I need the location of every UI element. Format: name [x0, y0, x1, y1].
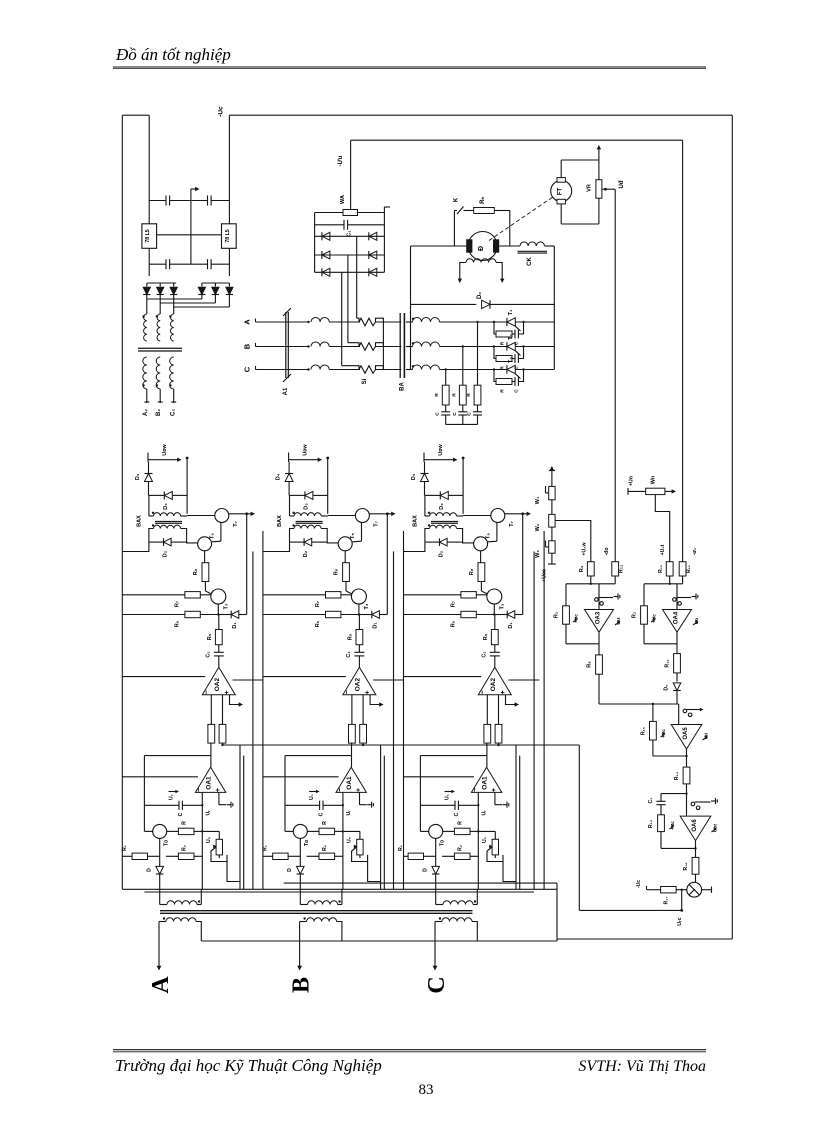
svg-text:T₁: T₁ — [508, 309, 514, 315]
contact K — [454, 210, 457, 212]
svg-text:R₅: R₅ — [483, 633, 489, 640]
wire center rail PSU — [190, 201, 192, 265]
wire oscillator output node — [681, 890, 683, 911]
wire right border — [731, 115, 733, 939]
resistor R1a ch3 — [404, 855, 409, 857]
svg-text:BAX: BAX — [137, 515, 143, 527]
resistor R6 ch3 — [404, 614, 461, 616]
svg-text:OA1: OA1 — [206, 776, 213, 790]
svg-text:R₁: R₁ — [263, 845, 269, 851]
wire -Uu tap — [350, 140, 352, 209]
svg-text:D₂: D₂ — [303, 550, 309, 557]
resistor R3 ch2 — [349, 724, 356, 743]
svg-text:Tᴅ: Tᴅ — [440, 840, 446, 846]
wire BAX lower to base ch2 — [290, 529, 295, 543]
node A2 B2 C2 terminals — [144, 401, 149, 403]
resistor R8 ch3 — [480, 551, 482, 563]
svg-text:−: − — [337, 788, 344, 792]
diode D1 ch2 — [358, 604, 360, 615]
resistor R6 ch2 — [263, 614, 326, 616]
svg-text:K: K — [454, 197, 460, 202]
capacitor C comparator ch3 — [419, 756, 421, 832]
resistor R17 — [647, 889, 661, 891]
resistor R8 ch2 — [344, 551, 346, 563]
diode D4 ch3 — [424, 462, 426, 474]
pulse transformer BAX ch2 — [289, 495, 291, 516]
footer rule — [113, 1049, 706, 1051]
wire channel inner box ch2 — [380, 745, 382, 889]
diode D3 ch1 — [149, 494, 164, 496]
svg-text:C: C — [178, 812, 184, 816]
snubber network R-C phase B — [462, 347, 464, 386]
diode D ch3 — [435, 838, 437, 866]
bridge diode row 2 — [315, 254, 385, 256]
svg-text:−: − — [480, 690, 487, 694]
wire OA2 plus stub arrow ch1 — [230, 695, 241, 705]
svg-text:R: R — [322, 821, 328, 825]
svg-text:R₁₁: R₁₁ — [658, 565, 664, 573]
svg-text:W₁: W₁ — [535, 496, 541, 504]
resistor R5 ch3 — [494, 615, 496, 630]
wire sync secondary return — [201, 940, 557, 942]
capacitor C1 ch2 — [354, 651, 364, 653]
svg-text:OA2: OA2 — [214, 678, 221, 692]
wire OA1 input stubs ch2 — [342, 792, 344, 889]
op-amp OA3 — [566, 583, 615, 585]
snubber RC T₂ — [494, 347, 496, 359]
svg-text:Tᴅ: Tᴅ — [304, 840, 310, 846]
transistor T1 ch2 — [285, 830, 293, 832]
resistor R3 ch3 — [484, 724, 491, 743]
capacitor C1 ch3 — [490, 651, 500, 653]
op-amp OA1 ch3 — [471, 767, 501, 792]
capacitor C comparator ch2 — [284, 756, 286, 832]
svg-text:R: R — [451, 393, 457, 397]
resistor R4 ch3 — [495, 724, 502, 743]
resistor R6 reg — [598, 632, 600, 655]
svg-text:R₁₅: R₁₅ — [641, 726, 647, 735]
svg-text:U₁: U₁ — [309, 794, 315, 800]
svg-text:+: + — [365, 690, 372, 694]
sync transformer secondary ch1 — [163, 917, 165, 919]
wire K branch legs — [453, 211, 455, 247]
regulator 78L5 left — [142, 224, 157, 249]
svg-text:-Uᴄ: -Uᴄ — [218, 106, 225, 117]
svg-text:U₁: U₁ — [445, 794, 451, 800]
capacitor C1 integrator — [661, 793, 687, 795]
pulse shaper stage — [687, 882, 702, 897]
svg-text:-đᴏ: -đᴏ — [604, 547, 610, 555]
tacho generator FT — [551, 181, 572, 202]
resistor R3 ch1 — [208, 724, 215, 743]
ground reference pots — [551, 467, 553, 486]
svg-text:R: R — [500, 366, 506, 370]
transformer BA primary C — [307, 368, 309, 370]
svg-text:U₀: U₀ — [482, 836, 488, 843]
transistor T7 ch1 — [215, 509, 229, 523]
node U1w marker ch3 — [423, 453, 425, 463]
choke CK — [520, 242, 545, 246]
sync transformer primary ch3 — [435, 889, 437, 904]
svg-text:R₁: R₁ — [122, 845, 128, 851]
svg-text:R₇: R₇ — [451, 601, 457, 607]
svg-text:CK: CK — [527, 257, 533, 266]
op-amp OA2 ch2 — [343, 667, 376, 695]
wire T7 emitter feedback ch2 — [386, 514, 388, 615]
svg-text:OA2: OA2 — [354, 678, 361, 692]
diode D3 ch3 — [425, 494, 440, 496]
resistor R7 ch1 — [122, 594, 185, 596]
svg-text:SVTH: Vũ Thị Thoa: SVTH: Vũ Thị Thoa — [578, 1058, 706, 1075]
svg-text:R: R — [434, 393, 440, 397]
node common output arrow — [190, 189, 192, 201]
svg-text:R₈: R₈ — [193, 568, 199, 575]
bridge diode row 3 — [315, 271, 385, 273]
snubber network R-C phase A — [477, 322, 479, 385]
resistor R2 ch2 — [307, 830, 319, 832]
svg-text:W₂: W₂ — [535, 523, 541, 531]
snubber RC T₁ — [494, 322, 496, 334]
svg-text:R₅: R₅ — [207, 633, 213, 640]
wire tacho loop — [560, 160, 562, 178]
capacitor C7 — [149, 200, 166, 202]
svg-text:T₃: T₃ — [500, 603, 506, 609]
svg-text:R₁₄: R₁₄ — [674, 771, 680, 780]
svg-text:83: 83 — [419, 1082, 434, 1098]
resistor R1b ch2 — [307, 855, 319, 857]
resistor R13 integrator — [658, 815, 665, 832]
tacho coupling dashed shaft — [489, 197, 554, 241]
wire BAX top right ch1 — [186, 458, 188, 514]
transformer BA primary A — [307, 321, 309, 323]
svg-text:T₇: T₇ — [233, 521, 239, 527]
svg-text:Uᵣ: Uᵣ — [206, 810, 212, 816]
svg-text:+: + — [356, 788, 363, 792]
svg-text:BAX: BAX — [277, 515, 283, 527]
svg-text:C: C — [319, 812, 325, 816]
sync transformer secondary ch3 — [439, 917, 441, 919]
capacitor C10 — [191, 263, 208, 265]
svg-text:+U₂t: +U₂t — [660, 544, 666, 555]
svg-text:T₃: T₃ — [364, 603, 370, 609]
transformer BA2 primary windings — [144, 314, 147, 341]
svg-text:U₀: U₀ — [206, 836, 212, 843]
svg-text:D: D — [287, 868, 293, 872]
wire voltage feedback rail — [682, 140, 684, 562]
fuse Si B — [359, 343, 376, 351]
svg-text:+Un: +Un — [629, 476, 635, 486]
svg-text:Đồ án tốt nghiệp: Đồ án tốt nghiệp — [115, 45, 231, 64]
resistor R6 ch1 — [122, 614, 185, 616]
resistor R1a ch2 — [263, 855, 273, 857]
svg-text:+: + — [500, 690, 507, 694]
transistor T3 ch3 — [487, 589, 502, 604]
wire channel left rail link ch2 — [263, 542, 290, 551]
resistor R13a reg — [666, 562, 673, 576]
transformer BA2 secondary windings — [143, 357, 147, 389]
wire T7 emitter feedback ch3 — [522, 514, 524, 615]
transistor T5 ch3 — [496, 522, 498, 541]
diode D2 ch2 — [290, 541, 305, 543]
node U1w marker ch2 — [288, 453, 290, 463]
svg-text:B: B — [243, 343, 252, 349]
svg-text:Uᵣ: Uᵣ — [482, 810, 488, 816]
svg-text:D: D — [147, 868, 153, 872]
wire OA2 plus stub arrow ch2 — [370, 695, 381, 705]
svg-text:D₄: D₄ — [411, 473, 417, 480]
svg-text:OA6: OA6 — [692, 819, 698, 832]
svg-text:Uᴅw: Uᴅw — [162, 444, 168, 456]
diode D ch2 — [299, 838, 301, 866]
diode D5 — [673, 683, 681, 691]
thyristor T₁ — [507, 318, 515, 326]
svg-text:VR: VR — [587, 184, 593, 192]
wire phase lead ch2 — [299, 922, 301, 968]
wire BAX top right ch3 — [462, 458, 464, 514]
wire OA1 apex node ch1 — [144, 755, 211, 757]
svg-text:R₄: R₄ — [579, 565, 585, 572]
svg-text:+: + — [224, 690, 231, 694]
node +Ucc supply — [551, 553, 553, 564]
capacitor C bridge — [315, 224, 344, 226]
diode D3 ch2 — [290, 494, 305, 496]
svg-text:R₂: R₂ — [182, 844, 188, 851]
wire outer frame top-left — [122, 114, 149, 116]
svg-text:-Ưu: -Ưu — [338, 155, 344, 166]
svg-text:Rₕ: Rₕ — [480, 197, 486, 204]
svg-text:T₅: T₅ — [350, 533, 356, 539]
svg-text:R₅: R₅ — [348, 633, 354, 640]
svg-text:D₃: D₃ — [304, 503, 310, 510]
wire speed reference rail — [614, 189, 616, 562]
svg-text:R: R — [500, 341, 506, 345]
svg-text:OA5: OA5 — [683, 727, 689, 740]
svg-text:W₃: W₃ — [535, 550, 541, 558]
svg-text:D₃: D₃ — [439, 503, 445, 510]
wire channel left rail link ch1 — [122, 542, 149, 551]
svg-text:C₁: C₁ — [346, 651, 352, 658]
svg-text:Uᵣc: Uᵣc — [677, 917, 683, 925]
svg-text:−: − — [204, 690, 211, 694]
wire OA1 minus line ch1 — [122, 776, 198, 778]
svg-text:A: A — [243, 319, 252, 325]
sync transformer core rail — [160, 910, 473, 912]
node Ud wiper — [602, 188, 615, 190]
wire OA1 minus line ch3 — [404, 776, 475, 778]
svg-text:+Uᴄᴄ: +Uᴄᴄ — [542, 569, 548, 582]
resistor R4 reg — [555, 521, 591, 562]
wire channel inner box ch3 — [515, 745, 517, 889]
resistor R1a ch1 — [122, 855, 132, 857]
svg-text:A: A — [148, 976, 174, 994]
svg-text:T₂: T₂ — [508, 334, 514, 340]
wire Wn wiper — [655, 495, 669, 562]
svg-text:R₇: R₇ — [315, 601, 321, 607]
resistor R1 feedback OA4 — [643, 584, 645, 606]
transformer BA secondary A — [406, 321, 413, 323]
transistor T5 ch2 — [361, 522, 363, 541]
resistor R11 reg — [612, 562, 619, 576]
wire channel left rail link ch3 — [404, 542, 425, 551]
svg-text:U₀: U₀ — [347, 836, 353, 843]
svg-text:−: − — [472, 788, 479, 792]
sync transformer secondary ch2 — [303, 917, 305, 919]
wire T7 emitter feedback ch1 — [246, 514, 248, 615]
header rule — [113, 66, 706, 68]
wire summing node — [599, 703, 679, 705]
svg-text:D₁: D₁ — [508, 622, 514, 629]
svg-text:OA1: OA1 — [482, 776, 489, 790]
sync transformer primary ch1 — [159, 889, 161, 904]
op-amp OA2 ch3 — [478, 667, 511, 695]
transformer BA core — [399, 313, 401, 378]
wire motor box sides — [410, 246, 412, 370]
svg-text:R₁₇: R₁₇ — [664, 897, 670, 905]
svg-text:78 L5: 78 L5 — [225, 229, 231, 242]
svg-text:R₁₃: R₁₃ — [648, 819, 654, 828]
wire OA2 inputs ch1 — [122, 676, 205, 678]
diode D1 ch1 — [217, 604, 219, 615]
resistor R7 ch3 — [404, 594, 461, 596]
svg-text:D₁: D₁ — [373, 622, 379, 629]
svg-text:C: C — [452, 412, 458, 416]
fuse Si A — [359, 318, 376, 326]
node U1w marker ch1 — [147, 453, 149, 463]
svg-text:−: − — [344, 690, 351, 694]
svg-text:R₁: R₁ — [632, 611, 638, 618]
transistor T1 ch1 — [144, 830, 152, 832]
svg-text:R₆: R₆ — [315, 620, 321, 627]
wire OA1 apex node ch3 — [420, 755, 487, 757]
svg-text:D₅: D₅ — [664, 684, 670, 691]
svg-text:C: C — [243, 366, 252, 372]
svg-text:Trường đại học Kỹ Thuật Công N: Trường đại học Kỹ Thuật Công Nghiệp — [115, 1056, 382, 1075]
svg-text:R₁: R₁ — [398, 845, 404, 851]
op-amp OA4 — [644, 583, 683, 585]
svg-text:OA2: OA2 — [490, 678, 497, 692]
op-amp OA1 ch2 — [336, 767, 366, 792]
svg-text:R₈: R₈ — [469, 568, 475, 575]
wire bridge to phases — [356, 236, 358, 318]
svg-text:BA: BA — [399, 382, 405, 391]
svg-text:Uᴅw: Uᴅw — [438, 444, 444, 456]
potentiometer W3 — [551, 527, 553, 541]
svg-text:C: C — [435, 412, 441, 416]
diode D4 ch2 — [288, 462, 290, 474]
wire armature line — [411, 245, 468, 247]
snubber RC T₃ — [494, 370, 496, 382]
svg-text:Uᴅw: Uᴅw — [303, 444, 309, 456]
wire OA2 inputs ch2 — [263, 676, 346, 678]
wire phase lead ch3 — [434, 922, 436, 968]
resistor R16 — [695, 841, 697, 858]
svg-text:C: C — [467, 412, 473, 416]
svg-text:+: + — [491, 788, 498, 792]
potentiometer VR — [596, 180, 602, 199]
svg-text:C: C — [514, 389, 520, 393]
resistor R7 ch2 — [263, 594, 326, 596]
svg-text:R: R — [458, 821, 464, 825]
rectifier diodes D11-D16 — [148, 264, 150, 276]
svg-text:B₂: B₂ — [156, 409, 162, 416]
svg-text:D₄: D₄ — [135, 473, 141, 480]
svg-text:R₂: R₂ — [458, 844, 464, 851]
resistor R2 ch3 — [443, 830, 455, 832]
wire -Uc rail — [148, 115, 150, 200]
svg-text:A₂: A₂ — [143, 409, 149, 416]
svg-text:C₁: C₁ — [347, 230, 353, 237]
svg-text:OA1: OA1 — [346, 776, 353, 790]
svg-text:+: + — [215, 788, 222, 792]
resistor R13b reg — [679, 562, 686, 576]
resistor R4 ch2 — [360, 724, 367, 743]
resistor R1b ch1 — [166, 855, 178, 857]
svg-text:Đ: Đ — [478, 246, 485, 251]
transformer BA secondary C — [406, 369, 413, 371]
op-amp OA1 ch1 — [195, 767, 225, 792]
pulse transformer BAX ch1 — [148, 495, 150, 516]
svg-text:C₁: C₁ — [206, 651, 212, 658]
diode D2 ch3 — [425, 541, 440, 543]
wire OA1 minus line ch2 — [263, 776, 339, 778]
svg-text:B: B — [289, 977, 315, 993]
transformer BA2 core — [138, 347, 182, 349]
diode D0 freewheel — [411, 303, 477, 305]
svg-text:WA: WA — [340, 195, 346, 204]
svg-text:T₇: T₇ — [374, 521, 380, 527]
svg-text:T₅: T₅ — [486, 533, 492, 539]
resistor R8 ch1 — [204, 551, 206, 563]
fuse Si C — [359, 366, 376, 374]
wire BAX lower to base ch1 — [149, 529, 154, 543]
svg-text:T₃: T₃ — [224, 603, 230, 609]
wire BAX lower to base ch3 — [425, 529, 430, 543]
wire second top bus — [351, 139, 683, 141]
transistor T3 ch1 — [211, 589, 226, 604]
op-amp OA2 ch1 — [202, 667, 235, 695]
capacitor C comparator ch1 — [143, 756, 145, 832]
wire bottom right bus — [557, 938, 732, 940]
wire OA1 input stubs ch1 — [201, 792, 203, 889]
resistor Rh — [464, 210, 474, 212]
svg-text:R: R — [182, 821, 188, 825]
svg-text:R₂: R₂ — [322, 844, 328, 851]
svg-text:R₇: R₇ — [175, 601, 181, 607]
svg-text:D₁: D₁ — [232, 622, 238, 629]
wire channel bottom bus — [122, 888, 557, 890]
transistor T1 ch3 — [420, 830, 428, 832]
resistor R1 feedback OA3 — [565, 584, 567, 606]
svg-text:D: D — [423, 868, 429, 872]
svg-text:R: R — [500, 389, 506, 393]
svg-text:+U₂w: +U₂w — [582, 541, 588, 555]
snubber network R-C phase C — [445, 370, 447, 386]
resistor R15 feedback OA5 — [652, 704, 654, 721]
motor Đ — [468, 232, 497, 261]
potentiometer Wn — [627, 488, 629, 495]
diode D4 ch1 — [148, 462, 150, 474]
diode D ch1 — [159, 838, 161, 866]
svg-text:R₆: R₆ — [587, 661, 593, 668]
breaker A1 mark — [285, 312, 287, 378]
svg-text:R₈: R₈ — [334, 568, 340, 575]
transformer BA primary B — [307, 345, 309, 347]
svg-text:C: C — [424, 976, 450, 993]
transistor T3 ch2 — [351, 589, 366, 604]
thyristor T₂ — [507, 342, 515, 350]
wire rectifier cross links — [201, 295, 203, 300]
svg-text:−: − — [196, 788, 203, 792]
